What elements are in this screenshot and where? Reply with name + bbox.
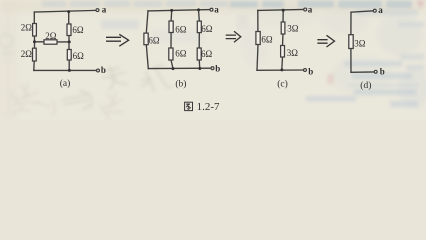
svg-text:(b): (b) bbox=[175, 79, 186, 90]
resistor R8 6ohm (b middle-bottom) bbox=[169, 48, 173, 60]
labels (c) bbox=[261, 5, 313, 90]
node dots (c) bbox=[280, 9, 284, 72]
wire: (a) left branch bbox=[33, 12, 36, 70]
svg-text:3Ω: 3Ω bbox=[354, 39, 366, 49]
wire: (a) bottom rail bbox=[34, 69, 97, 71]
caption: glyph for Chinese FIG drawn as vector bbox=[185, 102, 193, 110]
svg-text:6Ω: 6Ω bbox=[175, 48, 187, 58]
svg-text:6Ω: 6Ω bbox=[201, 49, 213, 59]
svg-text:a: a bbox=[308, 5, 313, 15]
resistor R14 3ohm (d) bbox=[349, 35, 353, 49]
wire: (d) bottom bbox=[351, 71, 374, 73]
terminal b of (c) bbox=[304, 69, 307, 72]
wire: (b) right branch bbox=[199, 10, 200, 69]
svg-text:(a): (a) bbox=[60, 78, 71, 89]
svg-text:3Ω: 3Ω bbox=[287, 48, 299, 58]
wire: (c) middle branch bbox=[282, 10, 283, 70]
svg-text:(c): (c) bbox=[277, 79, 288, 90]
resistor R6 6ohm (b left) bbox=[144, 33, 148, 45]
terminal a of (b) bbox=[210, 8, 213, 11]
svg-text:6Ω: 6Ω bbox=[73, 51, 85, 61]
labels (b) bbox=[148, 5, 220, 90]
faint outlined watermark: double arrow + two glyphs bbox=[56, 53, 172, 115]
wire: (a) middle branch bbox=[68, 11, 71, 70]
resistor R3 2ohm (a middle horizontal) bbox=[44, 40, 57, 44]
arrow 2 bbox=[226, 31, 241, 42]
wire: (b) left branch bbox=[146, 11, 148, 69]
svg-text:6Ω: 6Ω bbox=[201, 24, 213, 34]
svg-text:a: a bbox=[378, 5, 383, 15]
faint formulas bottom right bbox=[306, 61, 418, 107]
resistor R12 3ohm (c top) bbox=[281, 22, 285, 34]
svg-text:1.2-7: 1.2-7 bbox=[197, 101, 220, 113]
faint ring watermark left edge bbox=[0, 34, 14, 54]
faint red mark top-right bbox=[416, 1, 425, 9]
wire: (d) top bbox=[351, 11, 373, 12]
wire: (a) top rail bbox=[34, 10, 96, 12]
terminal a of (d) bbox=[373, 9, 376, 12]
svg-text:(d): (d) bbox=[360, 80, 371, 91]
resistor R5 6ohm (a middle-bottom) bbox=[67, 50, 71, 61]
svg-text:2Ω: 2Ω bbox=[21, 22, 33, 32]
resistor R13 3ohm (c bottom) bbox=[281, 46, 285, 58]
svg-text:6Ω: 6Ω bbox=[175, 24, 187, 34]
wire: (c) left branch bbox=[257, 10, 258, 70]
faint bleed-through second row right bbox=[356, 10, 424, 71]
svg-text:6Ω: 6Ω bbox=[72, 25, 84, 35]
wire: (c) top rail bbox=[258, 9, 304, 12]
resistor R2 2ohm (a bottom-left) bbox=[33, 48, 37, 61]
faint blue mottling right side bbox=[241, 5, 426, 108]
terminal a of (a) bbox=[96, 9, 99, 12]
svg-text:2Ω: 2Ω bbox=[45, 31, 57, 41]
svg-text:a: a bbox=[214, 5, 219, 15]
resistor R11 6ohm (c left) bbox=[256, 32, 260, 45]
wire: (d) branch bbox=[350, 12, 352, 72]
faint bleed-through text band (top strip) bbox=[42, 1, 228, 7]
terminal b of (d) bbox=[374, 70, 377, 73]
svg-text:6Ω: 6Ω bbox=[261, 35, 273, 45]
caption text 1.2-7 bbox=[197, 101, 220, 113]
faint floral watermark bottom-left bbox=[10, 82, 124, 120]
wire: (b) top rail bbox=[148, 10, 210, 11]
faint pink smudge left of (d) bbox=[327, 74, 334, 84]
svg-text:a: a bbox=[102, 5, 107, 15]
svg-text:b: b bbox=[380, 67, 385, 77]
wire: (a) middle tie bbox=[35, 41, 70, 43]
svg-text:b: b bbox=[308, 67, 313, 77]
wire: (b) bottom rail bbox=[148, 67, 211, 69]
svg-text:b: b bbox=[101, 65, 106, 75]
node dots (a) bbox=[33, 10, 71, 72]
resistor R7 6ohm (b middle-top) bbox=[169, 21, 173, 33]
node dots (b) bbox=[170, 8, 201, 70]
resistor R10 6ohm (b right-bottom) bbox=[197, 48, 201, 60]
labels (a) bbox=[21, 5, 107, 89]
wire: (c) bottom rail bbox=[257, 69, 304, 71]
terminal a of (c) bbox=[304, 8, 307, 11]
wire: (b) middle branch bbox=[171, 10, 173, 68]
faint blue patch between (a) and (b) bbox=[101, 20, 139, 29]
svg-text:6Ω: 6Ω bbox=[148, 35, 160, 45]
resistor R9 6ohm (b right-top) bbox=[197, 21, 201, 32]
arrow 3 bbox=[317, 35, 334, 47]
svg-text:3Ω: 3Ω bbox=[287, 24, 299, 34]
terminal b of (b) bbox=[211, 67, 214, 70]
svg-text:2Ω: 2Ω bbox=[21, 49, 33, 59]
resistor R4 6ohm (a middle-top) bbox=[67, 24, 71, 36]
svg-text:b: b bbox=[215, 63, 220, 73]
labels (d) bbox=[354, 5, 384, 91]
paper background bbox=[0, 0, 426, 120]
arrow 1 bbox=[106, 34, 129, 46]
terminal b of (a) bbox=[97, 69, 100, 72]
resistor R1 2ohm (a top-left) bbox=[33, 24, 37, 37]
